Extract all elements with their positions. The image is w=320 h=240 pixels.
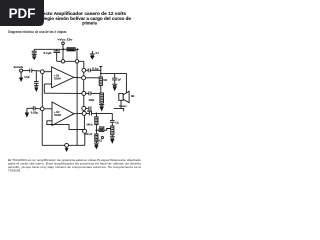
rail op2 input down to bottom bus: [41, 111, 43, 146]
rail op1 input down to op2 input: [41, 74, 43, 107]
wire pin3 down to output junction: [83, 72, 85, 76]
ground below R5: [94, 142, 99, 144]
svg-text:TDA2005.: TDA2005.: [8, 169, 21, 173]
capacitor C2 on bus: [56, 49, 58, 50]
rail segment: [83, 110, 85, 111]
wire box to right column: [104, 129, 112, 131]
wire feedback row to box: [96, 129, 99, 131]
wire Vcc terminal to bus: [62, 45, 64, 50]
svg-text:0.22µ: 0.22µ: [31, 111, 38, 115]
svg-text:primaria: primaria: [82, 21, 97, 26]
PDF badge: [0, 0, 44, 26]
resistor R5 box: [95, 134, 98, 141]
junction dot right of R1: [77, 48, 79, 50]
svg-text:100: 100: [103, 78, 107, 82]
svg-text:TDA2004: TDA2004: [54, 76, 61, 80]
wire pin to op2: [44, 108, 52, 110]
node bottom terminal: [65, 143, 69, 147]
bottom bus wire: [42, 144, 85, 146]
capacitor C7 at bias pin: [86, 107, 89, 109]
svg-text:100µF: 100µF: [87, 109, 92, 113]
wire op2 output: [74, 112, 82, 114]
rail pin2 down to bottom bus: [76, 63, 78, 145]
page background: [0, 0, 149, 198]
wire down to speaker: [125, 73, 127, 93]
capacitor C3: [87, 68, 89, 72]
junction dot feedback row: [96, 129, 98, 131]
rail to bottom bus: [84, 133, 86, 145]
wire op2 inverting staircase: [47, 121, 85, 130]
node small circle: [101, 137, 103, 139]
pin circle op2 + input: [40, 107, 44, 111]
junction circle op2 output: [82, 111, 86, 115]
svg-text:0.1µF: 0.1µF: [44, 51, 52, 55]
capacitor C5 shunt: [35, 71, 37, 82]
svg-text:220µF: 220µF: [99, 125, 105, 129]
pin circle op1 + input: [40, 70, 44, 74]
svg-text:140 k: 140 k: [86, 123, 93, 127]
svg-text:4.7µF: 4.7µF: [24, 75, 30, 79]
resistor R6 box: [111, 126, 114, 135]
capacitor C8 series: [88, 111, 90, 115]
capacitor C4 input coupling: [29, 69, 31, 73]
ground below C5: [34, 85, 39, 87]
wire output to column: [86, 77, 101, 79]
node +Vcc terminal circle: [62, 42, 65, 45]
wire output row right: [86, 112, 89, 114]
wire bus to pin 1: [62, 49, 64, 59]
ground tail below terminal: [66, 147, 68, 148]
ground mid floating: [91, 51, 93, 54]
svg-text:PDF: PDF: [9, 6, 36, 21]
svg-text:TDA2004: TDA2004: [54, 113, 61, 117]
ground below C1: [32, 53, 37, 55]
svg-text:0.1: 0.1: [96, 51, 100, 55]
op-amp U1A triangle: [52, 67, 74, 88]
capacitor C1 decoupling left: [33, 49, 35, 51]
pin circle feedback: [82, 91, 86, 95]
wire C3 to right column: [90, 69, 101, 71]
wire op1 inverting input: [44, 83, 51, 85]
svg-text:+Vcc 13v: +Vcc 13v: [57, 38, 72, 42]
junction circle output: [82, 76, 86, 80]
pin circle bias: [82, 106, 86, 110]
wire Vcc bus: [34, 48, 77, 50]
svg-text:Entrada: Entrada: [14, 65, 23, 69]
wire speaker return: [114, 100, 121, 108]
speaker LS1: [119, 94, 123, 101]
svg-text:220µF: 220µF: [89, 98, 95, 102]
wire pin row corner down: [83, 61, 85, 68]
junction dot at Vcc: [63, 48, 65, 50]
svg-text:8Ω: 8Ω: [131, 94, 135, 98]
capacitor C12: [111, 113, 113, 120]
wire pin row: [57, 60, 84, 62]
wire R5 to ground: [95, 141, 97, 143]
resistor R2 box: [99, 77, 102, 86]
ground arrow below Entrada: [20, 72, 22, 78]
resistor R4 box: [95, 117, 98, 125]
pin circle bottom: [83, 129, 87, 133]
wire Zobel row: [101, 72, 127, 74]
wire pin3 to C3: [86, 69, 89, 71]
pin circle 2: [75, 60, 78, 63]
svg-text:0.1µ: 0.1µ: [92, 66, 99, 70]
wire C4 to op-amp input: [32, 70, 41, 72]
svg-text:100 µF: 100 µF: [85, 132, 93, 136]
capacitor C6 at feedback pin: [86, 92, 89, 94]
rail segment down: [83, 115, 85, 129]
pin circle 3: [82, 68, 86, 72]
node Entrada terminal: [20, 69, 23, 72]
wire bus to pin 2: [76, 49, 78, 59]
resistor R7 box horizontal: [99, 129, 104, 132]
ground at C9: [25, 113, 28, 117]
wire R2 to R3: [100, 86, 102, 94]
resistor R3 box: [100, 93, 104, 103]
svg-text:Diagrama eléctrico de una de l: Diagrama eléctrico de una de las 4 etapa…: [8, 30, 67, 34]
junction dot output row: [96, 113, 98, 115]
rail below output junction: [83, 80, 85, 92]
svg-text:1µF: 1µF: [118, 78, 121, 82]
ground below C10: [112, 83, 117, 85]
wire Entrada to C4: [23, 70, 30, 72]
wire R6 to ground: [111, 135, 113, 137]
wire op1 output: [74, 76, 82, 78]
capacitor C10 1uF: [114, 73, 116, 78]
ground below R6: [110, 136, 115, 138]
rail segment: [83, 95, 85, 106]
pin circle 1: [61, 60, 64, 63]
wire C9 to ground: [27, 107, 33, 109]
wire pin to op1: [44, 71, 51, 73]
op-amp U1B triangle: [52, 102, 74, 126]
wire R4 to junction: [95, 125, 97, 135]
right column top tick: [99, 65, 102, 67]
resistor R1 box on bus: [67, 48, 75, 51]
capacitor C9 at op2 input: [32, 106, 34, 110]
wire to R4: [95, 113, 97, 116]
svg-text:0.1µ: 0.1µ: [115, 121, 119, 125]
ground below R3: [101, 103, 103, 104]
svg-text:Ohms: Ohms: [119, 104, 127, 108]
svg-text:sencillo, ya que tiene muy baj: sencillo, ya que tiene muy bajo número d…: [8, 165, 141, 169]
